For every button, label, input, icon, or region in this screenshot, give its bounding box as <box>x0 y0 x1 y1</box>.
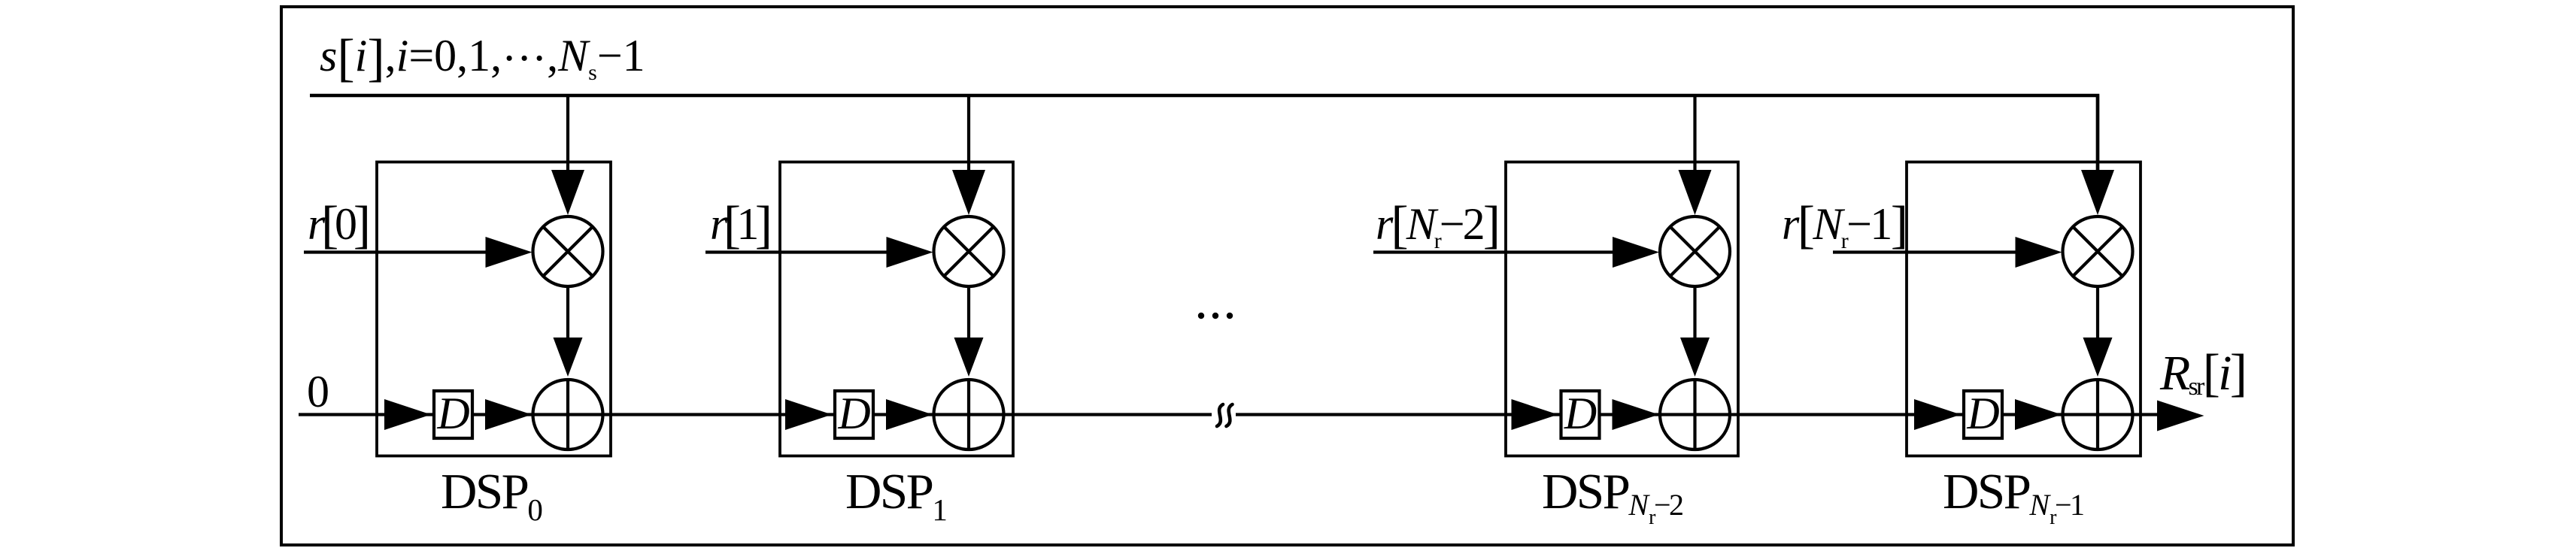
arrowhead: chain input into D box of DSP1 <box>384 399 431 430</box>
DSP2 block outline rectangle <box>780 162 1013 456</box>
DSP3 block outline rectangle <box>1506 162 1738 456</box>
adder plus vertical bar of DSP1 <box>566 380 569 450</box>
multiplier circle of DSP3 <box>1660 216 1730 286</box>
multiplier circle of DSP4 <box>2063 216 2133 286</box>
wire break squiggle on accumulator chain <box>1217 404 1233 426</box>
wire: s bus drop into DSP2 multiplier <box>967 95 970 177</box>
outer border frame of correlator bank <box>281 7 2293 545</box>
ellipsis dots between DSP1 and DSP Nr-2 <box>1198 313 1233 319</box>
arrowhead: r input into multiplier of DSP4 <box>2016 237 2062 268</box>
arrowhead: chain input into D box of DSP4 <box>1914 399 1961 430</box>
adder plus vertical bar of DSP4 <box>2096 380 2099 450</box>
multiplier circle of DSP2 <box>934 216 1004 286</box>
delay register D box of DSP1 <box>434 391 472 438</box>
arrowhead: product into adder of DSP4 <box>2083 338 2113 377</box>
wire: multiplier output down to adder of DSP2 <box>967 286 970 342</box>
multiplier X cross of DSP2 <box>944 227 994 277</box>
svg-text:r[0]: r[0] <box>308 196 371 254</box>
arrowhead: D box output into adder of DSP3 <box>1613 399 1659 430</box>
svg-text:D: D <box>1564 389 1597 438</box>
wire: multiplier output down to adder of DSP4 <box>2096 286 2099 342</box>
svg-text:D: D <box>1966 389 1999 438</box>
arrowhead: product into adder of DSP3 <box>1680 338 1710 377</box>
svg-text:Rsr[i]: Rsr[i] <box>2159 344 2247 402</box>
wire: multiplier output down to adder of DSP1 <box>566 286 569 342</box>
wire: accumulator chain (0 input through all adders) left segment <box>299 413 1212 416</box>
arrowhead: product into adder of DSP2 <box>954 338 984 377</box>
DSP block 3 processing element <box>1373 95 1738 456</box>
arrowhead: s bus into multiplier of DSP2 <box>952 170 985 215</box>
svg-text:r[1]: r[1] <box>710 196 772 254</box>
wire: accumulator chain right segment to output <box>1236 413 2157 416</box>
wire: r coefficient input line into DSP1 <box>304 250 523 253</box>
arrowhead: s bus into multiplier of DSP1 <box>551 170 584 215</box>
svg-text:D: D <box>436 389 469 438</box>
wire: s bus drop into DSP4 multiplier <box>2096 95 2099 177</box>
arrowhead: chain input into D box of DSP3 <box>1512 399 1558 430</box>
arrowhead: s bus into multiplier of DSP3 <box>1679 170 1712 215</box>
arrowhead: D box output into adder of DSP1 <box>485 399 532 430</box>
arrowhead: r input into multiplier of DSP3 <box>1613 237 1659 268</box>
adder circle of DSP4 <box>2063 380 2133 450</box>
wire: multiplier output down to adder of DSP3 <box>1693 286 1696 342</box>
wire: s bus drop into DSP3 multiplier <box>1693 95 1696 177</box>
adder circle of DSP1 <box>533 380 603 450</box>
wire: s[i] input bus <box>310 95 2098 177</box>
wire: r coefficient input line into DSP2 <box>705 250 924 253</box>
wire: r coefficient input line into DSP3 <box>1373 250 1650 253</box>
adder plus vertical bar of DSP2 <box>967 380 970 450</box>
arrowhead: r input into multiplier of DSP1 <box>486 237 532 268</box>
svg-text:D: D <box>837 389 870 438</box>
multiplier circle of DSP1 <box>533 216 603 286</box>
DSP4 block outline rectangle <box>1907 162 2141 456</box>
delay register D box of DSP4 <box>1964 391 2002 438</box>
svg-text:0: 0 <box>307 367 329 416</box>
adder circle of DSP2 <box>934 380 1004 450</box>
wire: r coefficient input line into DSP4 <box>1833 250 2053 253</box>
adder circle of DSP3 <box>1660 380 1730 450</box>
delay register D box of DSP3 <box>1561 391 1600 438</box>
arrowhead: r input into multiplier of DSP2 <box>887 237 933 268</box>
arrowhead: product into adder of DSP1 <box>554 338 583 377</box>
multiplier X cross of DSP3 <box>1670 227 1720 277</box>
multiplier X cross of DSP1 <box>543 227 593 277</box>
delay register D box of DSP2 <box>835 391 873 438</box>
DSP block 1 processing element <box>304 95 611 456</box>
output arrowhead: Rsr[i] result <box>2157 401 2204 431</box>
wire: s bus drop into DSP1 multiplier <box>566 95 569 177</box>
DSP block 2 processing element <box>705 95 1013 456</box>
arrowhead: D box output into adder of DSP4 <box>2015 399 2062 430</box>
arrowhead: D box output into adder of DSP2 <box>886 399 933 430</box>
adder plus vertical bar of DSP3 <box>1693 380 1696 450</box>
arrowhead: chain input into D box of DSP2 <box>785 399 832 430</box>
DSP block 4 processing element <box>1833 95 2141 456</box>
multiplier X cross of DSP4 <box>2073 227 2122 277</box>
DSP1 block outline rectangle <box>377 162 611 456</box>
arrowhead: s bus into multiplier of DSP4 <box>2081 170 2114 215</box>
